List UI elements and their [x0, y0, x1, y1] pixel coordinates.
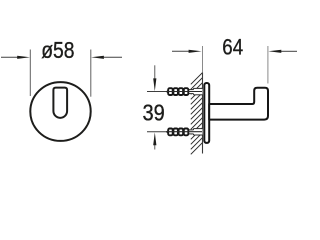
- screw tip: [166, 90, 169, 94]
- hook arm + tip: [209, 88, 268, 120]
- screw bottom: [166, 129, 203, 136]
- extension line left: [29, 50, 31, 97]
- thread waists: [172, 130, 184, 135]
- dim line + arrow left: [172, 50, 189, 52]
- screw tip: [166, 130, 169, 134]
- dim line + arrow left: [1, 56, 18, 58]
- svg-text:64: 64: [222, 36, 243, 60]
- dim line + arrow right: [104, 56, 122, 58]
- dim line + arrow right: [281, 50, 297, 52]
- extension line bottom: [147, 131, 166, 133]
- thread beads: [168, 129, 188, 136]
- screw axis line: [166, 131, 202, 133]
- extension line left (above wall): [202, 46, 204, 73]
- slot: hook seen from front: [53, 88, 67, 118]
- wall face line: [202, 73, 204, 154]
- extension line right: [267, 46, 269, 84]
- thread waists: [172, 89, 184, 94]
- extension line top: [147, 91, 166, 93]
- dim line top + arrow down: [154, 65, 156, 79]
- screw top: [166, 88, 203, 95]
- thread beads: [168, 88, 188, 95]
- dim line bottom + arrow up: [154, 145, 156, 150]
- circle: hook wall plate front view: [30, 82, 90, 141]
- svg-text:ø58: ø58: [41, 38, 74, 63]
- wall hatching: [191, 73, 203, 155]
- screw axis line: [166, 91, 202, 93]
- svg-text:39: 39: [142, 99, 164, 126]
- wall plate (flange): [204, 83, 209, 143]
- extension line right: [90, 50, 92, 97]
